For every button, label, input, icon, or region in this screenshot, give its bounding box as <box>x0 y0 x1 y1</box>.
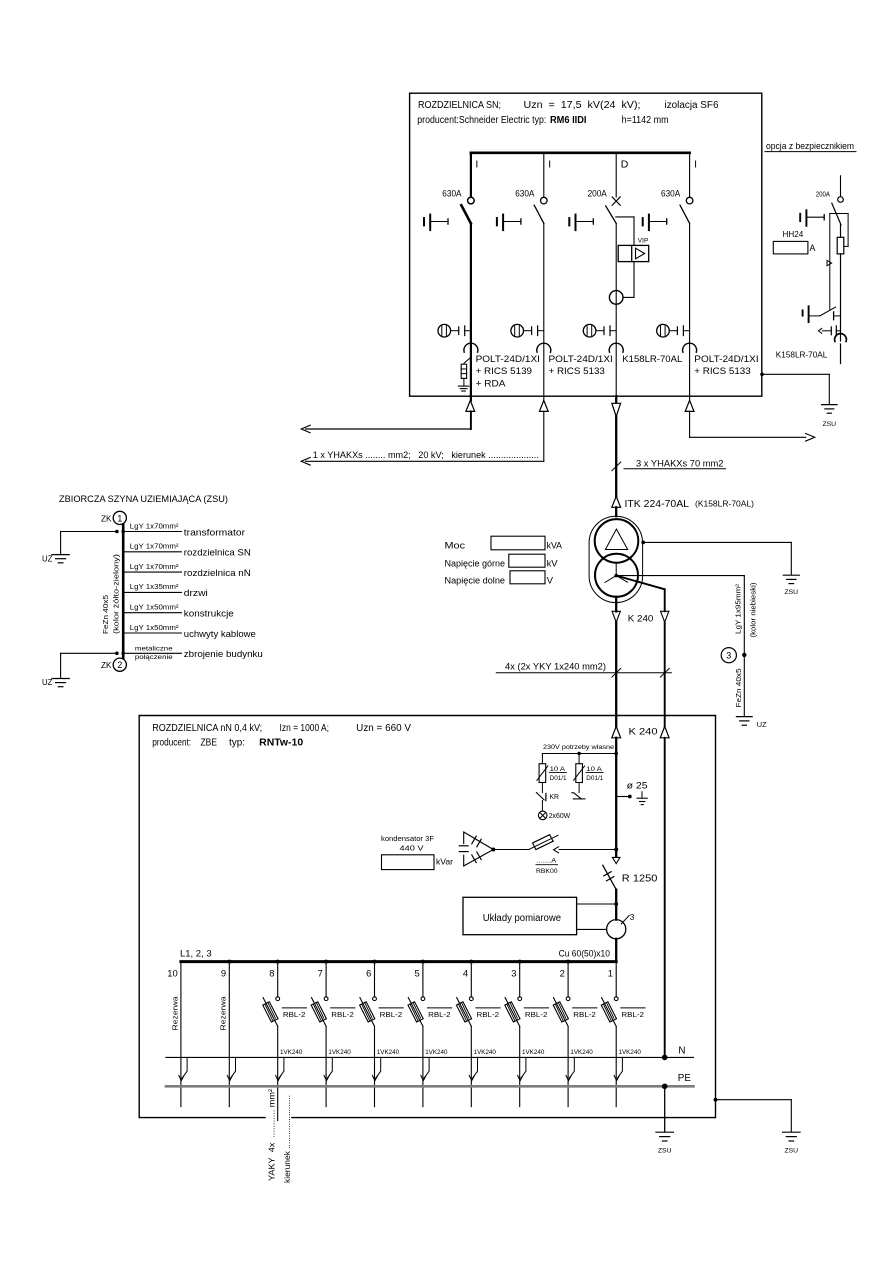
svg-text:1VK240: 1VK240 <box>280 1049 303 1056</box>
wire: N-PE hook way 7 <box>327 1057 332 1078</box>
svg-text:ZK: ZK <box>101 514 112 523</box>
earthing switch of bay 3 <box>569 215 593 231</box>
svg-text:10 A: 10 A <box>586 766 602 773</box>
switch: manual contact of right aux circuit <box>572 793 585 799</box>
ground: small earth at o25 <box>637 792 647 805</box>
wire: way 2 drop <box>566 960 570 964</box>
wire: main to LV busbar <box>615 939 617 962</box>
relay U1: arrow glyph inside VIP box <box>636 248 645 259</box>
svg-text:5: 5 <box>414 968 419 979</box>
cable termination arc bay 2 <box>537 343 551 352</box>
wire: fuse striker linkage bracket <box>830 213 848 215</box>
svg-text:2: 2 <box>117 660 122 670</box>
svg-text:9: 9 <box>221 968 226 979</box>
transformer T1: LV winding circle <box>595 554 638 597</box>
svg-text:kVA: kVA <box>547 540 563 551</box>
svg-text:7: 7 <box>318 968 323 979</box>
busbar SN <box>471 151 690 154</box>
svg-text:POLT-24D/1XI: POLT-24D/1XI <box>549 354 613 364</box>
cable termination arc bay 3 <box>609 343 623 352</box>
svg-text:1VK240: 1VK240 <box>377 1049 400 1056</box>
svg-text:2: 2 <box>560 968 565 979</box>
wire: ZSU to UZ earth electrode top <box>115 530 119 534</box>
svg-text:producent:Schneider Electric t: producent:Schneider Electric typ: <box>417 115 546 126</box>
svg-text:metaliczne: metaliczne <box>135 646 173 653</box>
wire: option left parallel path <box>829 214 831 310</box>
fuse-switch: RBL-2 way 5 <box>408 997 425 1027</box>
arrow: K240 cable down (neutral) <box>664 589 666 611</box>
wire: way 5 drop <box>421 960 425 964</box>
earthing switch of bay 2 <box>497 215 521 231</box>
transformer T1: tank outline <box>589 516 643 602</box>
svg-text:RBL-2: RBL-2 <box>621 1010 644 1019</box>
svg-text:630A: 630A <box>661 188 680 198</box>
enclosure: rozdzielnica SN RM6 cabinet outline <box>410 93 762 396</box>
svg-text:ROZDZIELNICA SN;: ROZDZIELNICA SN; <box>418 100 501 111</box>
svg-text:1VK240: 1VK240 <box>619 1049 642 1056</box>
svg-text:RBL-2: RBL-2 <box>283 1010 306 1019</box>
wire: way 5 below fuse <box>422 1026 424 1106</box>
svg-text:FeZn 40x5: FeZn 40x5 <box>734 669 743 708</box>
ground: ZSU bottom right <box>783 1132 801 1154</box>
svg-text:LgY 1x70mm²: LgY 1x70mm² <box>130 542 179 551</box>
svg-text:UZ: UZ <box>757 720 767 729</box>
svg-text:ZSU: ZSU <box>784 589 798 596</box>
wire: way 3 below fuse <box>519 1026 521 1106</box>
wire: capacitor branch to main <box>559 849 616 851</box>
wire: way 4 drop <box>469 960 473 964</box>
cable termination arc bay 1 <box>464 343 478 352</box>
breaker Q3: fixed contact x-mark <box>612 197 620 205</box>
label: 10 A D01/1 left <box>549 766 566 782</box>
label: 10 A D01/1 right <box>586 766 603 782</box>
svg-text:ø 25: ø 25 <box>627 780 648 790</box>
svg-text:2x60W: 2x60W <box>549 811 571 820</box>
wire: way 8 drop <box>276 960 280 964</box>
svg-text:kierunek .....................: kierunek ....................... <box>282 1095 292 1183</box>
bus: PE busbar <box>166 1085 694 1088</box>
wire: way 4 below fuse <box>470 1026 472 1106</box>
label: RBL-2 way 1 <box>621 1007 645 1009</box>
wire: VIP to CT <box>633 262 635 298</box>
svg-text:VIP: VIP <box>638 238 649 245</box>
arrow: bay1 cable leaving <box>470 396 472 400</box>
arrow: K240 cable down (main) <box>612 610 620 612</box>
wire: o25 earthing tap <box>616 796 628 798</box>
svg-text:RM6 IIDI: RM6 IIDI <box>550 115 587 126</box>
wire: way 1 below fuse <box>615 1026 617 1106</box>
arrow: K240 entering nN board (main) <box>612 726 621 737</box>
label: bay4 cable head <box>694 354 758 376</box>
svg-text:+ RICS 5139: + RICS 5139 <box>476 366 532 376</box>
svg-text:K 240: K 240 <box>629 726 658 737</box>
svg-text:1VK240: 1VK240 <box>570 1049 593 1056</box>
enclosure: rozdzielnica nN RNTw-10 cabinet outline <box>139 716 715 1118</box>
wire: metering box links <box>577 903 617 905</box>
CT T2: metering current transformers <box>607 920 626 939</box>
wire: way 1 drop <box>615 962 617 997</box>
relay U1: VIP box <box>618 245 649 261</box>
arrow: bay2 cable leaving <box>543 396 545 400</box>
indicator: capacitive voltage indicator bay 1 <box>438 324 471 337</box>
svg-text:typ:: typ: <box>229 738 245 749</box>
ground: transformer ZSU <box>783 575 799 596</box>
wire: N-PE hook way 9 <box>230 1057 235 1078</box>
wire: N-PE hook way 3 <box>521 1057 526 1078</box>
indicator: capacitive voltage indicator bay 3 <box>583 324 616 337</box>
cable termination arc bay 4 <box>683 343 697 352</box>
svg-text:ZBE: ZBE <box>201 738 218 749</box>
node: PEN conductor on PE bar <box>662 1084 668 1090</box>
label: A / RBK00 <box>536 858 558 875</box>
wire: way 8 below fuse <box>277 1026 279 1120</box>
cable termination arc of option bay <box>835 334 847 342</box>
svg-text:Moc: Moc <box>445 540 466 551</box>
wire: ZSU to UZ earth electrode bottom <box>115 652 119 656</box>
label: bay1 cable head POLT-24D/1XI <box>476 354 540 389</box>
svg-text:uchwyty kablowe: uchwyty kablowe <box>184 628 256 639</box>
svg-text:RBL-2: RBL-2 <box>573 1010 596 1019</box>
svg-text:D01/1: D01/1 <box>550 775 567 782</box>
svg-text:1: 1 <box>117 513 122 523</box>
switch: option load-break fixed contact <box>838 197 844 203</box>
tick: cable marks on K240 conductors <box>612 669 621 678</box>
svg-text:N: N <box>678 1045 685 1056</box>
svg-text:(kolor żółto-zielony): (kolor żółto-zielony) <box>111 553 120 634</box>
svg-text:h=1142 mm: h=1142 mm <box>622 115 669 126</box>
wire: ZSU branch 4 to drzwi <box>123 591 181 593</box>
svg-text:440 V: 440 V <box>400 844 424 853</box>
box: kVar rating placeholder <box>382 855 435 870</box>
switch Q4: load-break switch fixed contact <box>686 197 693 204</box>
svg-text:A: A <box>810 243 816 253</box>
svg-text:200A: 200A <box>588 188 607 198</box>
svg-text:3: 3 <box>511 968 516 979</box>
wire: ZSU branch 5 to konstrukcje <box>123 612 181 614</box>
svg-text:3 x YHAKXs 70 mm2: 3 x YHAKXs 70 mm2 <box>636 458 724 468</box>
contact: open arrow of RBK00 <box>554 847 559 853</box>
fuse: D01/1 10A left <box>537 754 548 793</box>
label: SN producer / type <box>417 115 668 126</box>
transformer T1: HV winding circle <box>595 519 639 563</box>
svg-text:Uzn = 660 V: Uzn = 660 V <box>356 723 411 734</box>
svg-text:izolacja SF6: izolacja SF6 <box>665 100 720 111</box>
svg-text:UZ: UZ <box>42 678 53 687</box>
svg-text:630A: 630A <box>442 188 461 198</box>
svg-text:1VK240: 1VK240 <box>425 1049 448 1056</box>
svg-text:(K158LR-70AL): (K158LR-70AL) <box>695 499 754 508</box>
svg-text:Cu 60(50)x10: Cu 60(50)x10 <box>559 948 610 959</box>
svg-text:1: 1 <box>608 968 613 979</box>
wire: option bay incoming <box>840 176 842 197</box>
svg-text:10: 10 <box>167 968 177 979</box>
svg-text:630A: 630A <box>515 188 534 198</box>
svg-text:(kolor niebieski): (kolor niebieski) <box>749 582 758 638</box>
wire: bay 1 drop from busbar <box>470 153 472 197</box>
svg-text:HH24: HH24 <box>783 229 804 239</box>
svg-text:kVar: kVar <box>436 856 453 866</box>
svg-text:LgY 1x95mm²: LgY 1x95mm² <box>733 583 742 634</box>
svg-text:kondensator 3F: kondensator 3F <box>381 834 434 843</box>
svg-text:ZK: ZK <box>101 661 112 670</box>
wire: way 6 drop <box>373 960 377 964</box>
svg-text:producent:: producent: <box>152 738 191 749</box>
wire: ZSU branch 7 to zbrojenie budynku <box>123 652 181 654</box>
fuse-switch: RBK00 fuse disconnector <box>529 835 558 850</box>
svg-text:POLT-24D/1XI: POLT-24D/1XI <box>694 354 758 364</box>
svg-text:200A: 200A <box>816 190 831 199</box>
svg-text:LgY 1x50mm²: LgY 1x50mm² <box>130 623 179 632</box>
wire: N-PE hook way 1 <box>617 1057 622 1078</box>
wire: bay 2 drop from busbar <box>543 153 545 197</box>
svg-text:LgY 1x70mm²: LgY 1x70mm² <box>130 521 179 530</box>
fuse-switch: RBL-2 way 8 <box>263 997 280 1027</box>
node 3: circled number <box>721 648 736 663</box>
wire: way 2 below fuse <box>567 1026 569 1106</box>
label: RBL-2 way 5 <box>428 1007 452 1009</box>
svg-text:LgY 1x35mm²: LgY 1x35mm² <box>130 582 179 591</box>
fuse-switch: RBL-2 way 4 <box>456 997 473 1027</box>
wire: option bay outgoing <box>840 344 842 364</box>
ground: UZ top-left <box>42 554 69 563</box>
wire: bay 3 vertical feeder <box>615 223 617 396</box>
wire: reserve way 10 <box>180 962 182 1107</box>
svg-text:ITK 224-70AL: ITK 224-70AL <box>625 499 690 510</box>
lamp: 2x60W luminaire <box>538 811 547 820</box>
svg-text:Izn = 1000 A;: Izn = 1000 A; <box>280 723 330 734</box>
switch Q1: blade <box>461 205 471 223</box>
wire: reserve way 9 <box>227 960 231 964</box>
ground: ZSU at right of SN box <box>822 405 838 428</box>
wire: way 3 drop <box>518 960 522 964</box>
svg-text:RBL-2: RBL-2 <box>428 1010 451 1019</box>
wire: N-PE hook way 8 <box>279 1057 284 1078</box>
label: nN switchgear ratings <box>152 723 411 734</box>
svg-text:ZSU: ZSU <box>784 1147 798 1154</box>
wire: bay 4 vertical feeder <box>689 223 691 396</box>
svg-text:+ RICS 5133: + RICS 5133 <box>694 366 750 376</box>
svg-text:I: I <box>475 159 478 171</box>
svg-text:ZSU: ZSU <box>822 421 836 428</box>
fuse-switch: RBL-2 way 3 <box>505 997 522 1027</box>
wire: LV cables to nN board <box>615 622 617 726</box>
ground: UZ below node 3 <box>736 717 767 729</box>
ground: ZSU below nN board <box>656 1132 674 1154</box>
svg-text:.......A: .......A <box>537 858 557 865</box>
svg-text:+ RICS 5133: + RICS 5133 <box>549 366 605 376</box>
svg-text:YAKY 4x ........... mm²: YAKY 4x ........... mm² <box>267 1089 277 1181</box>
bus: main earthing busbar FeZn <box>122 525 125 659</box>
wire: way 7 drop <box>324 960 328 964</box>
svg-text:1VK240: 1VK240 <box>328 1049 351 1056</box>
arrow: bay3 incoming from transformer <box>615 396 617 403</box>
wire: LV main below transformer <box>615 597 617 612</box>
svg-text:konstrukcje: konstrukcje <box>184 608 234 619</box>
wire: bay2 cable to the left with direction arrow <box>543 411 545 461</box>
bus: LV main busbar <box>181 960 616 963</box>
svg-text:D: D <box>621 159 629 171</box>
svg-text:RBL-2: RBL-2 <box>380 1010 403 1019</box>
svg-text:K158LR-70AL: K158LR-70AL <box>776 350 828 360</box>
fuse-switch: RBL-2 way 6 <box>360 997 377 1027</box>
fuse-switch: RBL-2 way 2 <box>553 997 570 1027</box>
svg-text:230V potrzeby własne: 230V potrzeby własne <box>543 744 614 751</box>
wire: bay4 cable to the right with direction arrow <box>689 411 691 437</box>
svg-text:4: 4 <box>463 968 468 979</box>
svg-text:RBL-2: RBL-2 <box>331 1010 354 1019</box>
wire: MV feeder to transformer <box>615 417 617 497</box>
arrow: cable head ITK at transformer <box>612 496 621 507</box>
svg-text:I: I <box>694 159 697 171</box>
label: SN switchgear ratings <box>418 100 719 111</box>
svg-text:Uzn = 17,5 kV(24 kV);: Uzn = 17,5 kV(24 kV); <box>524 100 641 111</box>
svg-text:POLT-24D/1XI: POLT-24D/1XI <box>476 354 540 364</box>
marker: withdrawable contact on main <box>612 857 620 863</box>
svg-text:K158LR-70AL: K158LR-70AL <box>622 354 682 364</box>
svg-text:LgY 1x70mm²: LgY 1x70mm² <box>130 562 179 571</box>
wire: ZSU branch 2 to rozdzielnica SN <box>123 551 181 553</box>
svg-text:V: V <box>547 575 554 586</box>
wire: ZSU branch 3 to rozdzielnica nN <box>123 571 181 573</box>
arrow: K240 entering nN board (neutral) <box>660 726 669 737</box>
switch: option blade <box>832 203 841 225</box>
wire: bay 1 vertical feeder <box>470 223 472 396</box>
fuse F1: HH24 fuse body <box>840 225 842 238</box>
switch Q1: load-break switch fixed contact <box>468 197 475 204</box>
fuse-switch: RBL-2 way 1 <box>601 997 618 1027</box>
fuse: RDA voltage detection divider on bay 1 <box>458 357 471 391</box>
label: RBL-2 way 4 <box>476 1007 500 1009</box>
svg-text:RNTw-10: RNTw-10 <box>259 738 303 749</box>
wire: N-PE hook way 5 <box>424 1057 429 1078</box>
svg-text:zbrojenie budynku: zbrojenie budynku <box>184 648 263 659</box>
svg-text:Napięcie górne: Napięcie górne <box>445 558 506 569</box>
wire: main below R1250 <box>615 890 617 920</box>
svg-text:opcja z bezpiecznikiem: opcja z bezpiecznikiem <box>766 141 854 151</box>
svg-text:drzwi: drzwi <box>184 587 208 598</box>
svg-text:RBK00: RBK00 <box>536 868 558 875</box>
label: RBL-2 way 6 <box>379 1007 403 1009</box>
wire: capacitor branch <box>493 849 529 851</box>
svg-text:ZSU: ZSU <box>658 1147 672 1154</box>
tick: cable count mark <box>612 462 621 471</box>
svg-text:1 x YHAKXs ........ mm2; 20: 1 x YHAKXs ........ mm2; 20 kV; kierunek… <box>313 450 539 460</box>
capacitor C1: 3-phase capacitor bank <box>459 832 495 866</box>
svg-text:transformator: transformator <box>184 526 245 537</box>
svg-text:1VK240: 1VK240 <box>522 1049 545 1056</box>
svg-text:4x (2x YKY 1x240 mm2): 4x (2x YKY 1x240 mm2) <box>505 661 606 671</box>
svg-text:RBL-2: RBL-2 <box>525 1010 548 1019</box>
label: RBL-2 way 2 <box>573 1007 597 1009</box>
svg-text:połączenie: połączenie <box>135 654 173 661</box>
earthing switch of bay 4 <box>643 215 667 231</box>
ground: UZ bottom-left <box>42 678 69 687</box>
switch R1250: main switch-disconnector blade <box>603 865 616 889</box>
wire: bay 4 drop from busbar <box>689 153 691 197</box>
svg-text:1VK240: 1VK240 <box>474 1049 497 1056</box>
svg-text:Napięcie dolne: Napięcie dolne <box>445 575 506 586</box>
wire: cabinet earthing to ZSU right <box>714 1098 718 1102</box>
wire: bay 3 drop from busbar <box>615 153 617 197</box>
breaker Q3: blade <box>606 206 617 223</box>
indicator: capacitive voltage indicator bay 2 <box>511 324 544 337</box>
svg-text:UZ: UZ <box>42 554 53 563</box>
svg-text:K 240: K 240 <box>628 613 654 624</box>
svg-text:rozdzielnica nN: rozdzielnica nN <box>184 567 251 578</box>
fuse: D01/1 10A right <box>574 754 585 793</box>
label: RBL-2 way 8 <box>282 1007 306 1009</box>
switch Q2: load-break switch fixed contact <box>541 197 548 204</box>
svg-text:ZBIORCZA SZYNA UZIEMIAJĄCA (ZS: ZBIORCZA SZYNA UZIEMIAJĄCA (ZSU) <box>59 493 228 504</box>
svg-text:KR: KR <box>550 792 560 801</box>
svg-text:ROZDZIELNICA nN 0,4 kV;: ROZDZIELNICA nN 0,4 kV; <box>152 723 262 734</box>
wire: bay 2 vertical feeder <box>543 223 545 396</box>
svg-text:LgY 1x50mm²: LgY 1x50mm² <box>130 603 179 612</box>
earthing switch lower of option bay <box>803 306 841 322</box>
earthing switch of bay 1 <box>424 215 448 231</box>
svg-text:I: I <box>548 159 551 171</box>
wire: leader from RICS 5133 to ZSU earth <box>760 373 764 377</box>
box: HH24 label frame <box>773 241 808 254</box>
switch Q4: blade <box>680 205 690 223</box>
wire: ZSU branch 1 to transformator <box>123 531 181 533</box>
wire: neutral earthing conductor to UZ <box>616 575 744 577</box>
svg-text:6: 6 <box>366 968 371 979</box>
svg-text:Rezerwa: Rezerwa <box>170 997 179 1031</box>
svg-text:L1, 2, 3: L1, 2, 3 <box>180 948 212 959</box>
svg-text:D01/1: D01/1 <box>586 775 603 782</box>
switch KR: lighting contactor contact <box>536 793 546 812</box>
svg-text:3: 3 <box>630 913 635 922</box>
earthing switch upper of option bay <box>800 210 824 226</box>
wire: N-PE hook way 4 <box>472 1057 477 1078</box>
svg-text:Rezerwa: Rezerwa <box>219 997 228 1031</box>
arrow: bay4 cable leaving <box>689 396 691 400</box>
node: PEN conductor on N bar <box>662 1055 668 1061</box>
wire: N-PE hook way 6 <box>376 1057 381 1078</box>
svg-text:PE: PE <box>678 1073 692 1084</box>
CT T1: toroidal current transformer of D bay <box>609 291 623 305</box>
svg-text:R 1250: R 1250 <box>622 873 658 884</box>
transformer T1: star point <box>614 574 618 578</box>
transformer T1: LV takeoff to neutral conductor <box>616 576 665 590</box>
wire: N-PE hook way 2 <box>569 1057 574 1078</box>
wire: way 6 below fuse <box>374 1026 376 1106</box>
wire: bay1 cable to the left with direction arrow <box>470 411 472 429</box>
svg-text:3: 3 <box>726 651 731 661</box>
svg-text:+ RDA: + RDA <box>476 379 507 389</box>
box: Uklady pomiarowe metering <box>463 897 577 934</box>
svg-text:RBL-2: RBL-2 <box>477 1010 500 1019</box>
svg-text:rozdzielnica SN: rozdzielnica SN <box>184 547 251 558</box>
wire: transformer tank earthing to ZSU <box>641 541 645 545</box>
svg-text:kV: kV <box>547 558 559 569</box>
svg-text:FeZn 40x5: FeZn 40x5 <box>101 595 110 634</box>
wire: PEN down to ZSU <box>664 1086 666 1132</box>
relay U1: VIP protection relay tap wire <box>616 216 634 218</box>
switch Q2: blade <box>534 205 544 223</box>
tick: 3 CT count <box>621 915 629 924</box>
label: nN producer / type <box>152 738 303 749</box>
wire: way 7 below fuse <box>325 1026 327 1106</box>
bus: N busbar <box>166 1056 694 1058</box>
svg-text:Układy pomiarowe: Układy pomiarowe <box>483 913 562 924</box>
svg-text:8: 8 <box>269 968 274 979</box>
label: RBL-2 way 3 <box>524 1007 548 1009</box>
indicator: capacitive voltage indicator bay 4 <box>657 324 690 337</box>
svg-text:10 A: 10 A <box>550 766 566 773</box>
label: RBL-2 way 7 <box>331 1007 355 1009</box>
